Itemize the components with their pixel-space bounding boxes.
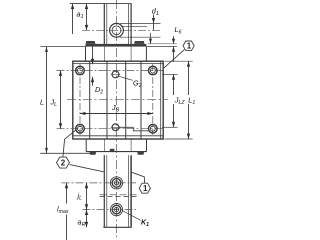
dimension J_B	[80, 112, 153, 115]
center hole G2 top	[112, 71, 119, 78]
end cap bottom	[86, 151, 146, 153]
hole column centerlines	[79, 64, 81, 135]
main horizontal centerline	[67, 99, 168, 101]
dimension aR	[85, 210, 88, 228]
svg-text:1: 1	[143, 184, 148, 193]
rail end face bottom	[103, 226, 131, 228]
hole horizontal centerline	[82, 29, 161, 31]
bottom chamfer line	[73, 135, 163, 137]
d1 extension lines	[120, 22, 161, 24]
balloon 1 top hexagon	[164, 41, 195, 68]
screw K1 upper	[110, 177, 122, 189]
section step line	[119, 127, 149, 131]
D2 dimension arrows	[91, 47, 94, 86]
corner hole bottom-left	[76, 124, 85, 133]
corner hole top-right	[149, 66, 158, 75]
balloon 2 hexagon	[57, 130, 104, 172]
dimension J_LZ extension lines	[162, 73, 178, 75]
dimension L1	[187, 61, 190, 139]
seal top extension line	[148, 43, 177, 45]
dimension jL	[85, 183, 88, 210]
dimension J_LZ	[172, 74, 175, 127]
G2 leader	[119, 76, 133, 80]
svg-text:2: 2	[61, 159, 66, 168]
screw centerlines	[62, 182, 137, 184]
cap top edge extension	[146, 46, 176, 48]
main vertical centerline	[115, 0, 117, 240]
corner hole bottom-right	[149, 124, 158, 133]
balloon 1 bottom hexagon	[131, 172, 150, 193]
dimension a1	[85, 4, 88, 31]
rail hole d1	[110, 23, 124, 37]
svg-text:L: L	[40, 98, 44, 107]
rail break lines	[100, 194, 140, 196]
rail lower segment left edge	[103, 155, 105, 227]
dimension L1 extension lines	[165, 60, 193, 62]
seal tab bottom-right	[137, 152, 144, 155]
top chamfer line	[73, 63, 163, 65]
dimension lmax	[65, 183, 68, 240]
lube port bottom cap	[110, 149, 115, 152]
screw K1 lower	[110, 204, 122, 216]
svg-text:1: 1	[187, 42, 192, 51]
center hole ticks	[111, 73, 120, 75]
seal pointer arrow	[149, 33, 152, 44]
rail top end face	[70, 3, 132, 5]
dimension a1 upper aux line	[71, 4, 74, 34]
corner hole top-left	[76, 66, 85, 75]
seal tab top-right	[134, 41, 144, 44]
hole row centerlines	[57, 70, 164, 72]
dimension L6	[172, 36, 175, 62]
rail chamfer lines top	[106, 4, 108, 47]
dimension J_L	[59, 71, 62, 129]
center hole bottom	[112, 124, 119, 131]
rail lower segment right edge	[130, 155, 132, 227]
rail upper segment left edge	[103, 4, 105, 47]
end cap top seal band	[86, 44, 147, 47]
dimension L	[45, 47, 48, 154]
dimension L extension lines	[40, 46, 86, 48]
seal tab top-left	[86, 41, 96, 44]
rail upper segment right edge	[130, 4, 132, 47]
rail chamfer lines bottom	[106, 155, 108, 227]
right chamfer line	[160, 61, 162, 139]
K1 label leader	[122, 211, 141, 221]
internal track lines	[89, 61, 91, 139]
seal tab bottom-left	[89, 152, 96, 155]
dimension d1 arrows	[152, 15, 155, 31]
carriage saddle outline	[73, 61, 163, 139]
